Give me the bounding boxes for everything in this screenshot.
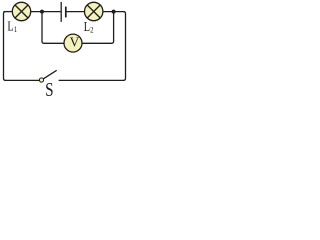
battery long plate xyxy=(60,2,62,22)
wire L2 to top-right corner xyxy=(103,11,125,13)
node junction dot right xyxy=(112,10,116,14)
lamp L1 xyxy=(12,2,30,20)
svg-text:S: S xyxy=(45,78,53,97)
node junction dot left xyxy=(40,10,44,14)
battery short plate xyxy=(65,7,67,18)
wire right edge xyxy=(124,12,126,81)
switch S pivot circle xyxy=(39,78,43,82)
switch lever xyxy=(43,70,57,79)
lamp L2 xyxy=(85,2,103,20)
wire battery to L2 xyxy=(67,11,85,13)
voltmeter branch wire right xyxy=(82,13,114,43)
wire top-left horizontal xyxy=(4,11,13,13)
wire bottom right (corner to switch) xyxy=(59,79,125,81)
voltmeter U1 xyxy=(64,34,82,52)
wire L1 to battery xyxy=(31,11,61,13)
wire bottom left (corner to switch) xyxy=(5,79,40,81)
voltmeter branch wire left xyxy=(42,13,64,43)
svg-text:L1: L1 xyxy=(7,18,17,34)
svg-text:V: V xyxy=(70,34,80,49)
wire left edge xyxy=(4,12,6,81)
